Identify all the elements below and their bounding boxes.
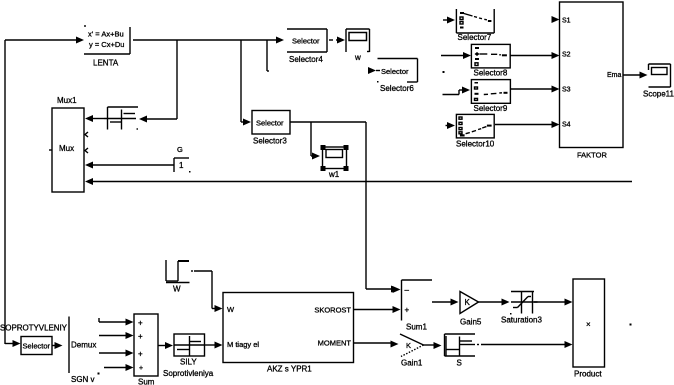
gain Gain5 <box>460 292 482 327</box>
svg-text:S4: S4 <box>562 122 571 129</box>
svg-text:W: W <box>173 285 181 294</box>
dot <box>443 71 445 73</box>
wire branch to Selector3 <box>241 40 251 126</box>
wire Selector9 to S3 <box>511 86 560 93</box>
svg-text:Selector9: Selector9 <box>474 104 508 113</box>
subsystem AKZ s YPR1 <box>223 293 354 374</box>
selector Selector10 <box>446 114 495 148</box>
selector Selector8 <box>471 44 510 77</box>
wire Gain1 to S <box>424 342 442 349</box>
svg-text:Selector6: Selector6 <box>380 84 414 93</box>
wire into transfer block from branch <box>144 118 146 120</box>
svg-text:Mux1: Mux1 <box>57 96 77 105</box>
scope w <box>346 29 370 62</box>
wire Selector8 to S2 <box>510 52 560 59</box>
svg-text:x' = Ax+Bu: x' = Ax+Bu <box>88 30 124 39</box>
saturation Saturation3 <box>501 292 542 325</box>
wire SILY to AKZ <box>205 342 223 349</box>
selector Selector6 <box>368 59 418 94</box>
selector bottom Selector <box>21 337 52 355</box>
label SOPROTYVLENIY <box>0 324 68 333</box>
demux output wire 2 <box>99 332 134 339</box>
svg-text:Selector8: Selector8 <box>474 69 508 78</box>
wire step to AKZ W input <box>191 271 223 312</box>
svg-text:Gain5: Gain5 <box>460 318 482 327</box>
product Product <box>573 279 605 379</box>
wire branch to scope w1 <box>311 122 320 160</box>
svg-text:+: + <box>139 365 143 372</box>
svg-text:–: – <box>405 286 410 295</box>
svg-text:Selector: Selector <box>23 342 51 351</box>
svg-text:+: + <box>138 319 143 328</box>
wire Selector4 to scope w <box>329 37 345 44</box>
wire LENTA output <box>133 37 284 44</box>
svg-text:SKOROST: SKOROST <box>314 306 351 315</box>
svg-text:w: w <box>354 53 361 62</box>
svg-text:Soprotivleniya: Soprotivleniya <box>163 369 214 378</box>
selector Selector4 <box>287 29 327 64</box>
svg-text:Selector4: Selector4 <box>289 55 323 64</box>
svg-text:Saturation3: Saturation3 <box>501 316 542 325</box>
demux SGN M <box>69 317 100 385</box>
wire Sum1 to Gain5 <box>432 299 459 306</box>
svg-text:Selector7: Selector7 <box>458 33 492 42</box>
wire stub on main line <box>267 40 269 71</box>
svg-text:Sum: Sum <box>138 378 155 385</box>
relay SILY <box>163 334 214 378</box>
wire into Selector9 <box>443 87 471 95</box>
svg-text:Sum1: Sum1 <box>406 323 427 332</box>
svg-text:FAKTOR: FAKTOR <box>577 151 607 160</box>
selector Selector3 <box>252 111 290 146</box>
step W <box>166 260 190 294</box>
svg-text:Scope11: Scope11 <box>643 90 674 99</box>
demux output wire 3 <box>99 350 134 357</box>
wire Selector10 to S4 <box>495 121 560 128</box>
wire Saturation3 to Product <box>534 299 573 306</box>
state-space LENTA <box>84 26 130 68</box>
svg-text:S2: S2 <box>562 52 571 59</box>
subsystem FAKTOR <box>560 2 624 160</box>
svg-text:y = Cx+Du: y = Cx+Du <box>89 40 124 49</box>
svg-text:LENTA: LENTA <box>93 59 119 68</box>
wire Gain5 to Saturation3 <box>479 299 510 306</box>
constant G <box>174 145 191 173</box>
wire Selector3 output <box>290 122 399 293</box>
gain Gain1 <box>400 334 424 368</box>
wire MOMENT to Gain1 <box>354 341 399 348</box>
svg-text:w1: w1 <box>328 170 340 179</box>
wire branch to transfer block <box>139 40 177 123</box>
svg-text:AKZ s YPR1: AKZ s YPR1 <box>267 365 312 374</box>
wire into bottom Selector <box>5 340 21 347</box>
svg-text:Selector3: Selector3 <box>253 137 287 146</box>
transfer fcn S <box>445 334 476 368</box>
svg-text:SGN v: SGN v <box>71 375 95 384</box>
selector Selector9 <box>471 80 510 113</box>
svg-text:M tiagy el: M tiagy el <box>227 340 259 349</box>
svg-text:SILY: SILY <box>180 358 197 367</box>
svg-text:Mux: Mux <box>59 144 74 153</box>
wire left vertical feed <box>4 40 6 344</box>
sum Sum <box>134 314 158 385</box>
svg-text:Selector: Selector <box>256 119 284 128</box>
svg-text:Demux: Demux <box>71 341 96 350</box>
long wire to Mux port5 <box>85 178 632 185</box>
svg-text:1: 1 <box>179 161 184 170</box>
svg-text:+: + <box>405 306 410 315</box>
wire Selector to Demux <box>52 342 63 349</box>
mux Mux1 <box>49 96 88 192</box>
sum Sum1 <box>402 280 433 332</box>
demux output wire 1 <box>99 318 134 326</box>
svg-text:S: S <box>457 359 462 368</box>
svg-text:W: W <box>227 305 235 314</box>
transfer fcn block (unnamed) <box>104 107 138 130</box>
dot <box>630 324 632 326</box>
wire into Selector8 <box>441 52 471 59</box>
svg-text:S1: S1 <box>562 18 571 25</box>
selector Selector7 <box>443 9 494 42</box>
svg-text:Selector10: Selector10 <box>456 140 495 149</box>
scope Scope11 <box>643 64 674 99</box>
svg-text:MOMENT: MOMENT <box>318 339 352 348</box>
scope w1 selected <box>321 145 349 179</box>
wire Sum to SILY <box>158 342 173 349</box>
svg-text:Selector: Selector <box>292 37 320 46</box>
svg-text:Gain1: Gain1 <box>401 359 423 368</box>
svg-text:S3: S3 <box>562 87 571 94</box>
svg-text:G: G <box>177 145 183 154</box>
svg-text:SOPROTYVLENIY: SOPROTYVLENIY <box>0 324 68 333</box>
wire into LENTA <box>5 37 84 44</box>
svg-text:K: K <box>465 298 471 307</box>
svg-text:Selector: Selector <box>381 67 409 76</box>
svg-text:+: + <box>138 350 143 359</box>
port arrow Sum1 minus <box>393 286 401 293</box>
demux output wire 4 <box>104 364 134 371</box>
svg-text:K: K <box>406 341 411 350</box>
wire S to Product <box>477 341 573 348</box>
wire constant G to Mux port4 <box>85 162 174 169</box>
svg-text:Ema: Ema <box>607 72 622 79</box>
svg-text:+: + <box>138 332 143 341</box>
svg-text:Product: Product <box>574 370 602 379</box>
wire transfer block to Mux port1 <box>85 115 104 122</box>
port arrow S1 <box>552 16 560 23</box>
svg-text:×: × <box>586 320 591 329</box>
wire SKOROST to Sum1 <box>354 306 401 313</box>
wire Ema to Scope11 <box>623 72 648 79</box>
